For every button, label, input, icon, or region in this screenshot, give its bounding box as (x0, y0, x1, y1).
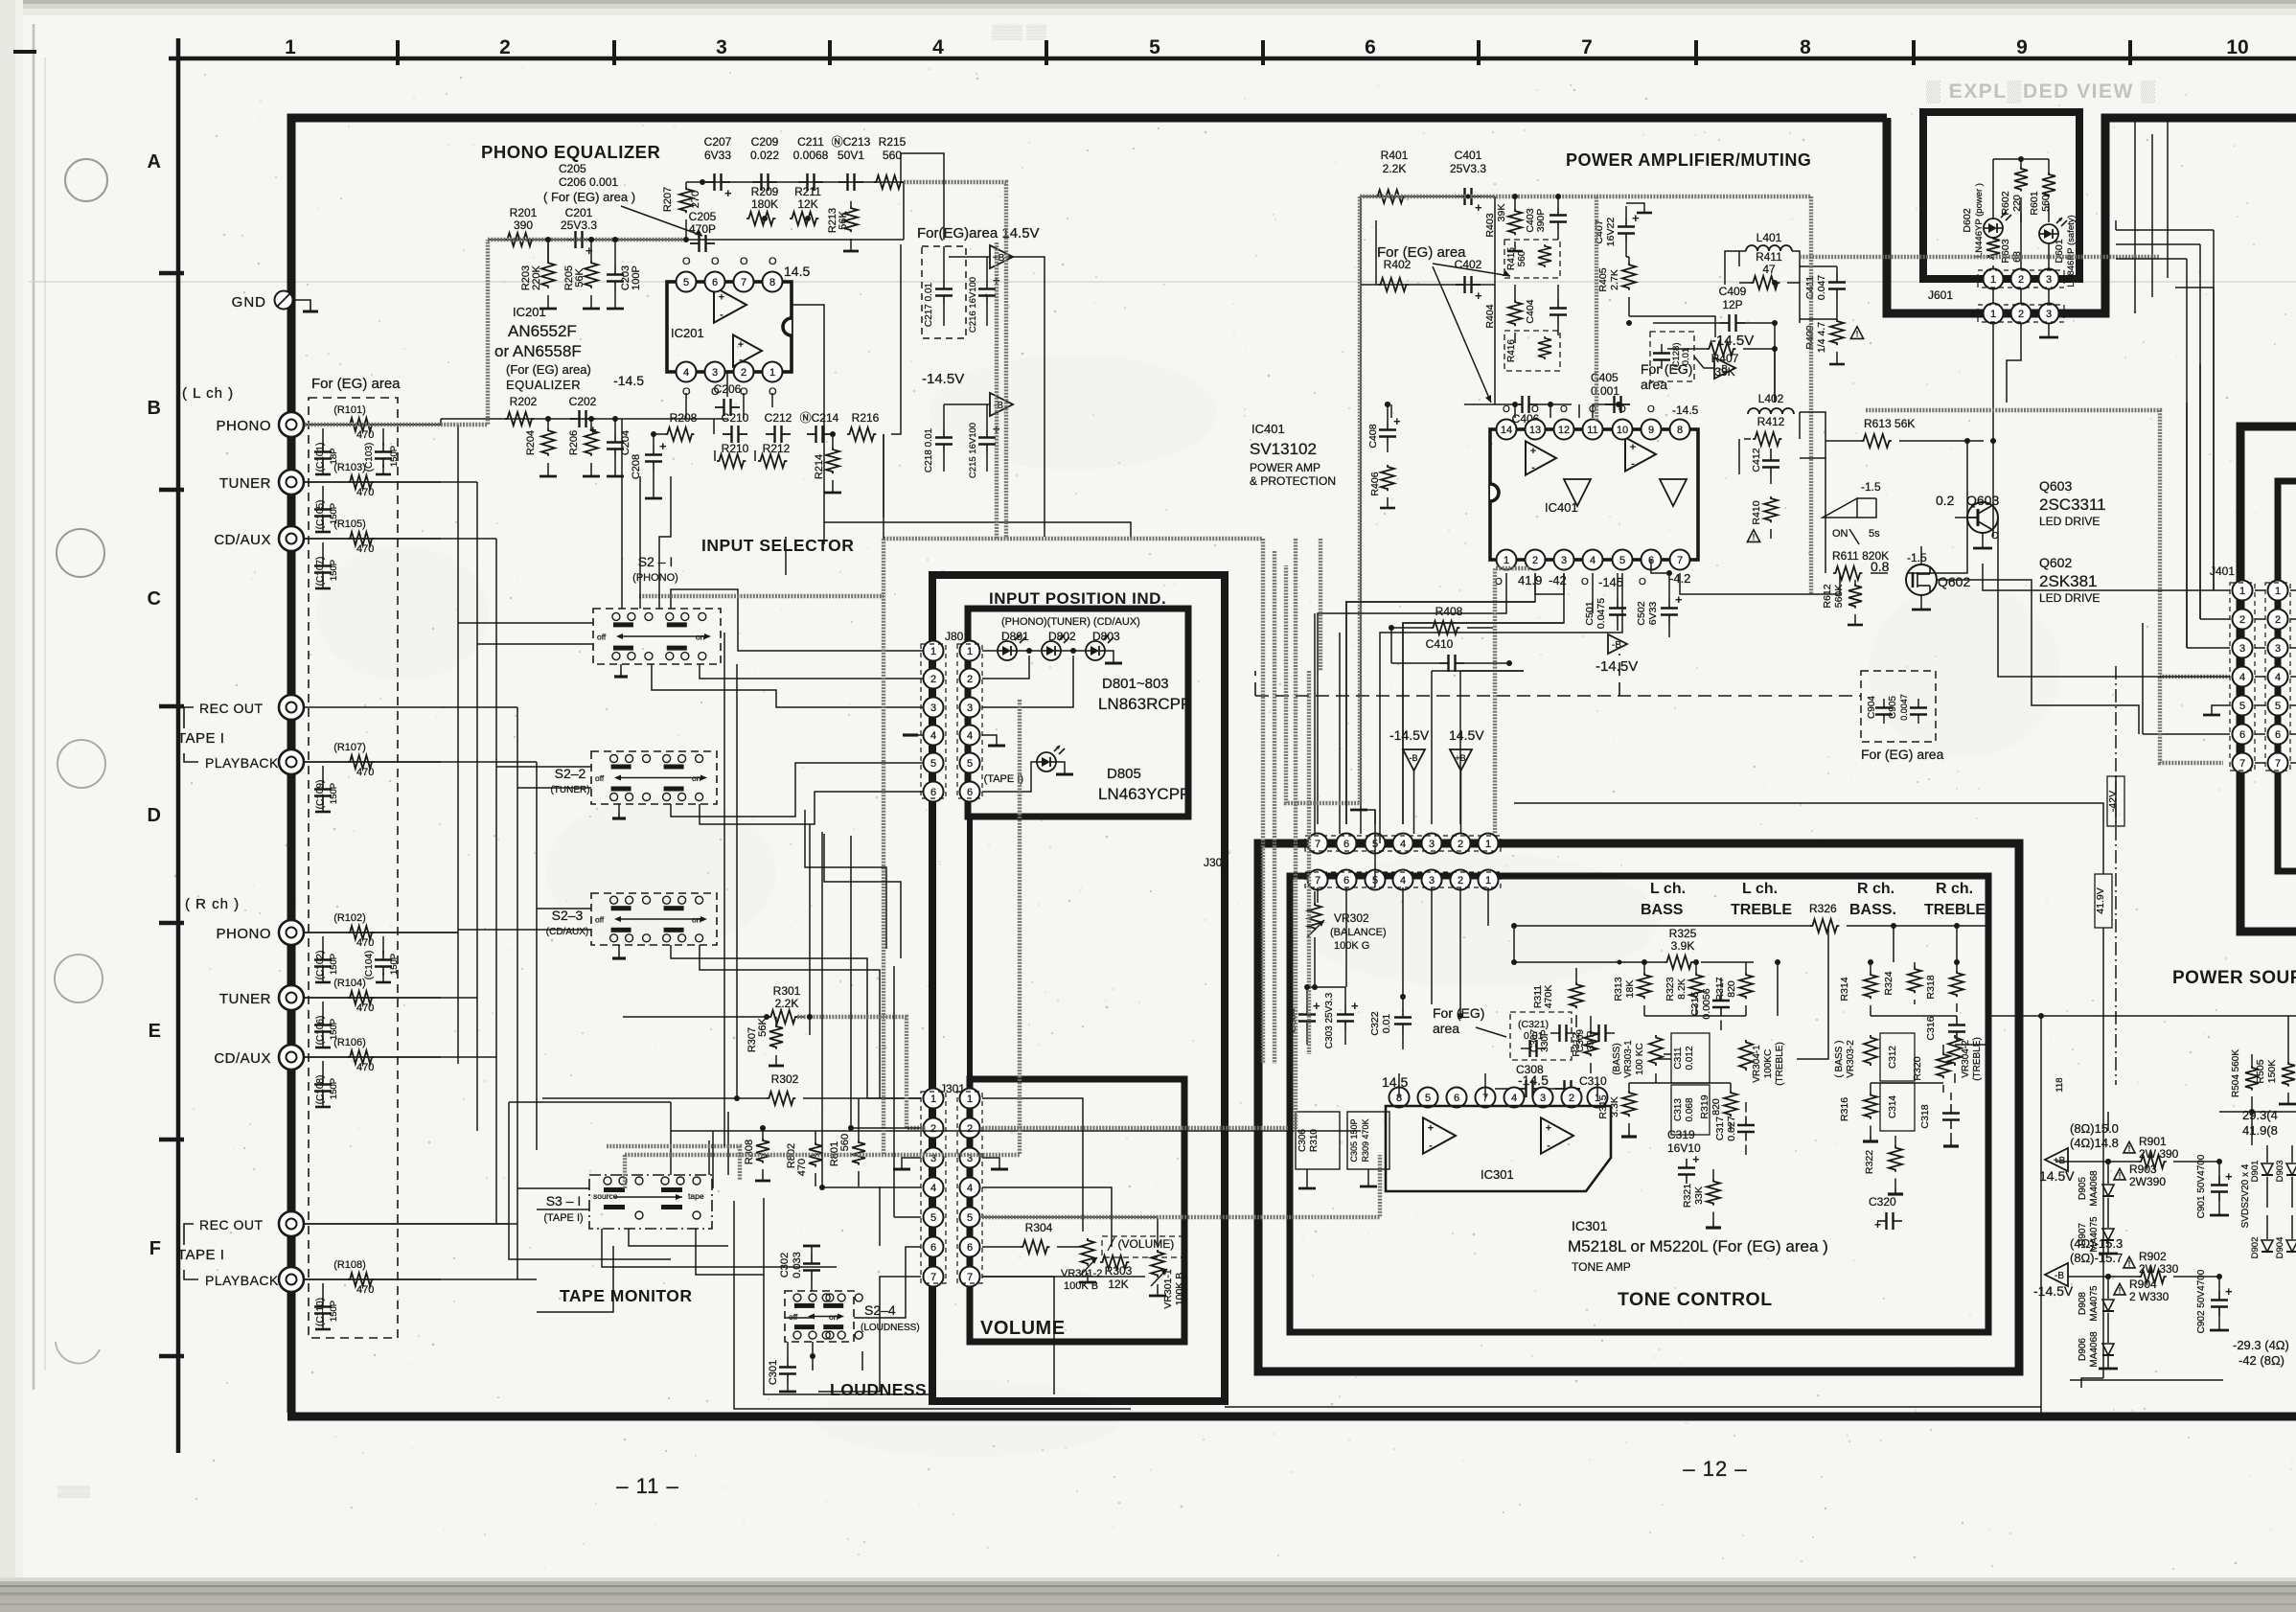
svg-text:R304: R304 (1025, 1221, 1053, 1234)
resistor R415 dashed (1504, 240, 1560, 278)
svg-text:▒ EXPL▒DED VIEW ▒: ▒ EXPL▒DED VIEW ▒ (1926, 81, 2157, 104)
capacitor C321 dashed (1510, 1012, 1572, 1060)
supply -B triangle C501 (1596, 634, 1638, 675)
svg-text:R412: R412 (1757, 415, 1785, 428)
svg-text:(R105): (R105) (333, 518, 366, 530)
svg-text:2: 2 (930, 674, 936, 685)
svg-text:C205: C205 (689, 210, 717, 223)
resistor R802 (786, 1131, 822, 1186)
wire Q602 Q603 to J401 (1937, 518, 2230, 734)
svg-text:6: 6 (1365, 36, 1376, 58)
svg-text:C412: C412 (1751, 448, 1762, 472)
resistor R407 (1667, 342, 1775, 379)
svg-text:-: - (720, 309, 723, 320)
svg-text:4: 4 (967, 1183, 973, 1194)
svg-text:S2–2: S2–2 (555, 766, 586, 781)
wire EQ area extras (548, 153, 944, 539)
svg-text:C305 150P: C305 150P (1349, 1118, 1359, 1162)
svg-text:Q603: Q603 (1966, 493, 1999, 508)
svg-text:!: ! (1753, 533, 1756, 542)
svg-text:3: 3 (2046, 274, 2052, 286)
svg-text:2: 2 (1458, 839, 1463, 850)
ground R316 (1870, 1136, 1871, 1141)
svg-text:150P: 150P (329, 783, 339, 804)
GND terminal (232, 291, 318, 312)
svg-text:1: 1 (1990, 274, 1996, 286)
RC network R107/C109 (304, 742, 441, 812)
svg-text:!: ! (2128, 1258, 2131, 1268)
svg-text:C408: C408 (1367, 424, 1379, 448)
svg-text:C318: C318 (1919, 1104, 1931, 1128)
svg-text:D801~803: D801~803 (1102, 676, 1169, 692)
svg-text:8: 8 (769, 277, 775, 288)
svg-text:C216 16V100: C216 16V100 (968, 277, 978, 333)
resistor R613 (1825, 417, 1984, 448)
svg-text:R326: R326 (1809, 902, 1837, 915)
label R ch TREBLE (1924, 881, 1986, 918)
capacitor C902 (2196, 1269, 2233, 1333)
transistor Q603 (1936, 493, 1999, 548)
svg-text:6: 6 (2275, 729, 2281, 741)
wire switches to J801/J301 (612, 537, 923, 1098)
svg-text:– 12 –: – 12 – (1683, 1457, 1747, 1481)
resistor R202 (505, 395, 538, 426)
svg-text:R308: R308 (744, 1140, 755, 1164)
svg-text:PLAYBACK: PLAYBACK (205, 755, 279, 771)
svg-text:-14.5V: -14.5V (1596, 658, 1638, 675)
svg-text:(PHONO)(TUNER) (CD/AUX): (PHONO)(TUNER) (CD/AUX) (1001, 616, 1140, 628)
J601 enclosure box (1923, 112, 2079, 279)
svg-text:0.0475: 0.0475 (1596, 598, 1607, 629)
svg-text:Q602: Q602 (2039, 555, 2072, 570)
svg-text:REC OUT: REC OUT (199, 1217, 264, 1232)
svg-text:!: ! (1856, 330, 1859, 339)
svg-text:39K: 39K (1714, 365, 1734, 379)
capacitor C406 (1464, 396, 1572, 426)
svg-text:For (EG) area: For (EG) area (1861, 747, 1944, 762)
svg-text:47: 47 (1762, 263, 1776, 276)
svg-text:14.5V: 14.5V (2039, 1168, 2075, 1184)
svg-text:-B: -B (1612, 640, 1621, 651)
left ruler (148, 38, 184, 1453)
svg-text:C205: C205 (559, 162, 586, 175)
svg-text:8: 8 (1677, 425, 1683, 436)
svg-text:VR304-2: VR304-2 (1961, 1040, 1971, 1078)
input terminal PHONO-R (279, 920, 304, 945)
svg-text:0.01: 0.01 (1681, 348, 1691, 366)
capacitor C208 (631, 434, 667, 498)
capacitor C303 (1324, 987, 1359, 1048)
resistor R210 (717, 442, 749, 468)
svg-text:R316: R316 (1839, 1097, 1850, 1121)
svg-text:2W390: 2W390 (2129, 1175, 2166, 1188)
resistor R601 (2029, 159, 2055, 222)
svg-text:4: 4 (930, 1183, 936, 1194)
top ruler (13, 36, 2296, 65)
resistor R307 (746, 1017, 784, 1066)
svg-text:2: 2 (2239, 614, 2245, 626)
bus IPI to VOLUME (967, 817, 973, 1098)
INPUT POSITION IND / VOLUME outer box (932, 575, 1225, 1401)
label For EG area tone (1433, 1005, 1506, 1037)
svg-text:O: O (1560, 404, 1568, 415)
vertical thin border powersource (2040, 1016, 2042, 1416)
svg-text:O: O (769, 256, 777, 267)
svg-text:POWER AMPLIFIER/MUTING: POWER AMPLIFIER/MUTING (1566, 150, 1811, 170)
label output voltages + (2070, 1121, 2119, 1150)
svg-text:470K: 470K (1543, 985, 1554, 1009)
svg-text:R404: R404 (1484, 304, 1496, 328)
IC201 pin 4 (677, 362, 697, 399)
resistor R211 (790, 185, 821, 225)
svg-text:8.2K: 8.2K (1676, 979, 1688, 1000)
svg-text:5: 5 (967, 758, 973, 770)
svg-text:& PROTECTION: & PROTECTION (1250, 474, 1336, 488)
capacitor C301 (768, 1342, 796, 1392)
svg-text:C306: C306 (1297, 1129, 1308, 1152)
svg-text:10: 10 (2226, 36, 2248, 58)
svg-text:(R104): (R104) (333, 978, 366, 989)
svg-text:11: 11 (1587, 425, 1597, 436)
svg-text:F: F (149, 1238, 161, 1259)
svg-text:C410: C410 (1426, 637, 1454, 651)
svg-text:390: 390 (514, 219, 533, 232)
capacitor C203 (607, 240, 642, 309)
svg-text:-14.5: -14.5 (613, 373, 644, 388)
svg-text:0.047: 0.047 (1816, 275, 1827, 300)
wire phono lower row (441, 418, 728, 420)
resistor R316 (1839, 1083, 1877, 1136)
wire poweramp out right (1725, 251, 1837, 474)
svg-text:PHONO: PHONO (216, 926, 271, 942)
svg-text:off: off (595, 915, 605, 925)
svg-text:O: O (1647, 404, 1655, 415)
svg-text:D902: D902 (2250, 1237, 2261, 1259)
svg-text:(C104): (C104) (364, 951, 375, 980)
svg-text:TUNER: TUNER (219, 991, 271, 1007)
svg-text:0.0047: 0.0047 (1899, 694, 1909, 721)
svg-text:5: 5 (930, 758, 936, 770)
IC301 body (1386, 1106, 1611, 1191)
wire phono input to EQ (305, 419, 441, 425)
svg-text:14.5V: 14.5V (1449, 727, 1484, 743)
capacitor C314 (1880, 1083, 1915, 1131)
svg-text:▒▒▒▒: ▒▒▒▒ (57, 1485, 91, 1498)
svg-text:L402: L402 (1758, 392, 1784, 405)
svg-text:(C106): (C106) (315, 1016, 326, 1046)
connector J401 (2230, 581, 2290, 773)
switch S2-2 (550, 751, 717, 804)
svg-text:+: + (1475, 200, 1482, 215)
svg-text:B: B (148, 398, 161, 419)
svg-text:ON: ON (1832, 528, 1848, 540)
svg-text:R325: R325 (1669, 927, 1697, 940)
svg-text:0.2: 0.2 (1936, 493, 1955, 508)
svg-text:(4Ω)14.8: (4Ω)14.8 (2070, 1136, 2119, 1150)
svg-text:IC401: IC401 (1545, 500, 1578, 515)
supply +B triangle (949, 245, 1013, 268)
svg-text:1: 1 (1504, 555, 1509, 566)
RC network R104/C106 (304, 978, 441, 1048)
svg-text:0.01: 0.01 (1381, 1014, 1392, 1034)
capacitor C407 (1594, 203, 1652, 257)
svg-text:6: 6 (967, 787, 973, 798)
IC201 pin 6 (705, 256, 725, 292)
resistor R317 (1714, 962, 1753, 1016)
svg-text:R505: R505 (2255, 1059, 2266, 1083)
svg-text:330P: 330P (1540, 1029, 1550, 1052)
svg-text:5: 5 (2275, 701, 2281, 712)
svg-text:-: - (1429, 1140, 1433, 1151)
svg-text:14: 14 (1501, 425, 1512, 436)
svg-text:6: 6 (930, 787, 936, 798)
svg-text:J303: J303 (1204, 856, 1228, 869)
svg-text:LN863RCPP: LN863RCPP (1098, 695, 1191, 713)
svg-text:0.012: 0.012 (1685, 1046, 1695, 1070)
wire phono to selector drops (622, 419, 671, 609)
svg-text:3: 3 (1429, 839, 1435, 850)
svg-text:CD/AUX: CD/AUX (214, 1050, 271, 1067)
svg-text:C404: C404 (1525, 299, 1536, 323)
svg-text:C502: C502 (1636, 601, 1647, 625)
capacitor C322 (1369, 997, 1412, 1049)
ground J601-3 (2039, 324, 2058, 337)
capacitor C306 R310 (1296, 1112, 1340, 1188)
capacitor C205 (689, 210, 717, 252)
svg-text:-: - (1547, 1140, 1550, 1151)
svg-text:+: + (719, 292, 724, 304)
supply +B triangle J303 (1449, 727, 1484, 834)
svg-text:R320: R320 (1912, 1056, 1923, 1080)
IC401 pins top (1497, 403, 1699, 440)
capacitor C502 (1636, 573, 1683, 637)
bundle S2-1 top (639, 594, 884, 598)
svg-text:4: 4 (932, 36, 944, 58)
svg-text:(8Ω)15.0: (8Ω)15.0 (2070, 1121, 2119, 1136)
resistor R612 (1822, 580, 1863, 625)
capacitor C211 (793, 135, 829, 191)
svg-text:2: 2 (930, 1123, 936, 1135)
svg-text:118: 118 (2055, 1077, 2065, 1092)
svg-text:41.9(8: 41.9(8 (2242, 1123, 2278, 1138)
svg-text:56K: 56K (757, 1018, 769, 1037)
svg-text:(4Ω)-15.3: (4Ω)-15.3 (2070, 1236, 2123, 1251)
IC201 pin 5 (677, 256, 697, 292)
svg-text:1: 1 (967, 646, 973, 657)
svg-text:C212: C212 (765, 411, 792, 425)
svg-text:0.022: 0.022 (750, 149, 779, 162)
svg-text:4: 4 (683, 367, 689, 379)
svg-text:2.7K: 2.7K (1609, 269, 1620, 290)
punch hole 3 (57, 740, 105, 788)
RC network R105/C107 (304, 518, 441, 588)
svg-text:C207: C207 (704, 135, 732, 149)
svg-text:O: O (711, 256, 720, 267)
svg-text:6V33: 6V33 (1647, 602, 1659, 626)
svg-text:3.9K: 3.9K (1671, 939, 1695, 953)
resistor R301 (623, 984, 805, 1024)
inductor L402 (1748, 392, 1794, 414)
capacitor C304 (1287, 987, 1320, 1045)
svg-text:3: 3 (2046, 309, 2052, 320)
svg-text:C307: C307 (1529, 1029, 1540, 1052)
svg-text:3: 3 (1429, 875, 1435, 887)
RC network R102/C102/C104 (304, 912, 441, 982)
resistor R405 (1597, 257, 1636, 316)
svg-text:12: 12 (1558, 425, 1570, 436)
svg-text:1: 1 (930, 646, 936, 657)
input terminal TUNER-R (279, 985, 304, 1010)
svg-text:6: 6 (1343, 839, 1349, 850)
capacitor C217 dashed EG box (922, 246, 966, 338)
svg-text:TREBLE: TREBLE (1731, 902, 1792, 918)
svg-text:( For (EG) area ): ( For (EG) area ) (543, 190, 635, 204)
svg-text:1: 1 (285, 36, 296, 58)
svg-text:TAPE MONITOR: TAPE MONITOR (560, 1286, 693, 1305)
resistor R208 (654, 411, 698, 441)
svg-text:MA4068: MA4068 (2089, 1331, 2100, 1368)
VOLUME box (970, 1079, 1184, 1342)
svg-text:off: off (789, 1312, 798, 1322)
svg-text:100P: 100P (631, 265, 642, 290)
svg-text:S3 – I: S3 – I (546, 1193, 582, 1209)
svg-text:7: 7 (2275, 758, 2281, 770)
svg-text:R415: R415 (1506, 247, 1517, 270)
svg-text:5: 5 (1619, 555, 1625, 566)
svg-text:150P: 150P (389, 446, 400, 467)
svg-text:100K B: 100K B (1174, 1273, 1185, 1305)
svg-text:7: 7 (1581, 36, 1593, 58)
resistor R323 (1665, 962, 1703, 1016)
svg-text:3: 3 (2239, 643, 2245, 655)
svg-text:L401: L401 (1756, 231, 1782, 244)
ground J303-5 (1350, 810, 1375, 824)
svg-text:PHONO: PHONO (216, 418, 271, 434)
svg-text:R322: R322 (1864, 1150, 1875, 1174)
bundle to J303 (1294, 539, 1297, 1133)
capacitor C210 (722, 411, 749, 443)
svg-text:D901: D901 (2250, 1161, 2261, 1183)
svg-text:(R106): (R106) (333, 1037, 366, 1048)
capacitor C207 (704, 135, 732, 200)
svg-text:on: on (692, 915, 701, 925)
svg-text:C: C (148, 588, 161, 610)
svg-text:AN6552F: AN6552F (508, 322, 577, 340)
label Q602 part (2039, 555, 2100, 605)
resistor R206 (568, 419, 600, 476)
label Q603 part (2039, 478, 2106, 528)
bundle tone drop (1307, 671, 1311, 1054)
svg-text:-29.3 (4Ω): -29.3 (4Ω) (2233, 1338, 2289, 1352)
svg-text:470: 470 (356, 1284, 374, 1296)
potentiometer VR301-1 (1149, 1250, 1185, 1309)
svg-text:TONE AMP: TONE AMP (1572, 1260, 1631, 1274)
inductor L401 (1739, 231, 1800, 266)
svg-text:M5218L or M5220L (For (EG) are: M5218L or M5220L (For (EG) area ) (1568, 1237, 1828, 1255)
bundle selector left (882, 539, 885, 1155)
wire ladder inputs (305, 425, 537, 1279)
switch S3-1 (543, 1175, 712, 1229)
svg-text:D906: D906 (2078, 1338, 2088, 1361)
wire tone to power source (1514, 803, 2103, 1162)
svg-text:6: 6 (1343, 875, 1349, 887)
resistor R416 dashed (1504, 331, 1560, 371)
svg-text:C217 0.01: C217 0.01 (924, 282, 934, 327)
svg-text:IC401: IC401 (1251, 422, 1285, 436)
svg-text:50V1: 50V1 (838, 149, 864, 162)
svg-text:+: + (1351, 999, 1359, 1013)
bundle selector right pair (1273, 551, 1276, 1064)
svg-text:150P: 150P (389, 954, 400, 975)
svg-text:7: 7 (741, 277, 746, 288)
label D805 (1098, 766, 1190, 803)
svg-text:(8Ω)-15.7: (8Ω)-15.7 (2070, 1251, 2123, 1265)
svg-text:▒▒▒ ▒▒: ▒▒▒ ▒▒ (992, 24, 1047, 40)
svg-text:R612: R612 (1822, 584, 1833, 608)
svg-text:REC OUT: REC OUT (199, 701, 264, 716)
wire selector area cross (805, 810, 901, 958)
IC201 pin 1 (763, 362, 783, 399)
svg-text:2: 2 (1532, 555, 1538, 566)
label TAPE I (L) (177, 701, 279, 771)
svg-text:6: 6 (967, 1242, 973, 1254)
svg-text:470P: 470P (689, 222, 716, 236)
TONE CONTROL outer box (1258, 843, 2019, 1371)
svg-text:150P: 150P (329, 1078, 339, 1099)
bundle poweramp toprun (1596, 195, 1811, 198)
svg-text:R903: R903 (2129, 1163, 2157, 1176)
svg-text:R613 56K: R613 56K (1864, 417, 1915, 430)
svg-text:4: 4 (1511, 1093, 1517, 1104)
wire tape monitor loop (305, 1102, 1361, 1267)
resistor R409 (1804, 319, 1864, 364)
tone mesh wires (1307, 810, 1988, 1097)
svg-text:(TAPE I): (TAPE I) (984, 773, 1023, 785)
svg-text:10: 10 (1617, 425, 1628, 436)
resistor R903 (2114, 1163, 2166, 1188)
svg-text:-: - (1531, 462, 1535, 473)
label L ch TREBLE (1731, 881, 1792, 918)
bundle J303 feed pair (1319, 539, 1322, 671)
capacitor C410 (1391, 628, 1512, 672)
svg-text:+: + (1630, 442, 1636, 453)
resistor R201 (505, 206, 538, 246)
resistor R203 (520, 240, 557, 309)
svg-text:+: + (738, 339, 744, 351)
wire IC401 to J303 more (1346, 573, 1622, 843)
svg-text:R411: R411 (1756, 250, 1782, 264)
svg-text:25V3.3: 25V3.3 (561, 219, 597, 232)
capacitor C212 (765, 411, 792, 443)
svg-text:3: 3 (930, 702, 936, 714)
bundle loudness vertical (623, 1155, 627, 1188)
svg-text:R323: R323 (1665, 977, 1676, 1001)
svg-text:For (EG) area: For (EG) area (1377, 244, 1466, 261)
svg-text:VR301-2: VR301-2 (1061, 1268, 1102, 1279)
label output voltages - (2070, 1236, 2123, 1265)
label -29.3 (2233, 1338, 2289, 1368)
svg-text:2: 2 (741, 367, 746, 379)
capacitor C315 (1689, 978, 1730, 1030)
svg-text:-42 (8Ω): -42 (8Ω) (2239, 1353, 2285, 1368)
svg-text:470: 470 (356, 487, 374, 498)
resistor R315 (1597, 1083, 1636, 1131)
svg-text:470: 470 (796, 1159, 808, 1176)
svg-text:PHONO EQUALIZER: PHONO EQUALIZER (481, 142, 660, 162)
IC201 pin 8 (763, 256, 783, 292)
svg-text:C313: C313 (1673, 1098, 1684, 1121)
capacitor C404 (1525, 285, 1567, 335)
